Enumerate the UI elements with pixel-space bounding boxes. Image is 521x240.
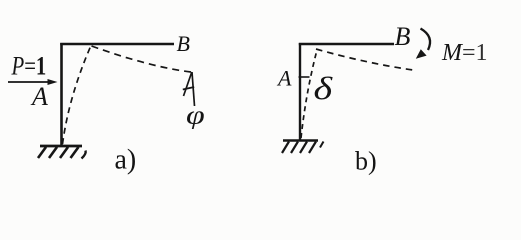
svg-text:δ: δ	[314, 71, 334, 106]
delta measure tick at A	[299, 76, 310, 78]
fixed support b: hatch 5 partial	[320, 142, 324, 148]
fixed support b: hatch 4	[309, 142, 316, 154]
deflected column b (dashed)	[301, 50, 317, 138]
svg-text:B: B	[395, 22, 411, 51]
moment arrow arc M=1	[421, 29, 431, 51]
svg-text:P=1: P=1	[11, 52, 47, 81]
rotation angle mark: right leg	[192, 72, 195, 106]
rotation angle mark: crossbar	[183, 87, 194, 90]
svg-text:φ: φ	[186, 100, 205, 129]
frame a: beam top horizontal member	[60, 43, 174, 46]
fixed support a: hatch 2	[49, 147, 57, 158]
fixed support a: comma mark	[82, 151, 86, 159]
fixed support b: ground line	[283, 139, 318, 141]
moment arrow head	[416, 49, 427, 59]
fixed support a: hatch 3	[60, 147, 68, 158]
svg-text:A: A	[30, 82, 48, 111]
frame a: column AB vertical member	[60, 43, 63, 146]
svg-text:M=1: M=1	[441, 40, 488, 66]
fixed support a: ground line	[40, 145, 82, 148]
deflected beam b (dashed)	[316, 49, 413, 70]
svg-text:A: A	[276, 66, 292, 91]
fixed support a: hatch 1	[38, 147, 46, 158]
deflected column a (dashed)	[63, 46, 92, 145]
rotation angle mark: left leg	[184, 72, 192, 96]
fixed support b: hatch 3	[300, 142, 307, 154]
frame b: beam top horizontal member	[299, 43, 394, 45]
svg-text:b): b)	[355, 147, 377, 176]
load arrow P=1 shaft	[8, 81, 51, 83]
svg-text:B: B	[177, 31, 190, 56]
fixed support b: hatch 2	[291, 142, 298, 154]
deflected beam a (dashed)	[92, 46, 192, 72]
fixed support b: hatch 1	[282, 142, 289, 154]
fixed support a: hatch 4	[71, 147, 79, 158]
load arrow P=1 head	[48, 79, 58, 85]
frame b: column vertical member	[299, 43, 301, 141]
svg-text:a): a)	[115, 145, 137, 176]
